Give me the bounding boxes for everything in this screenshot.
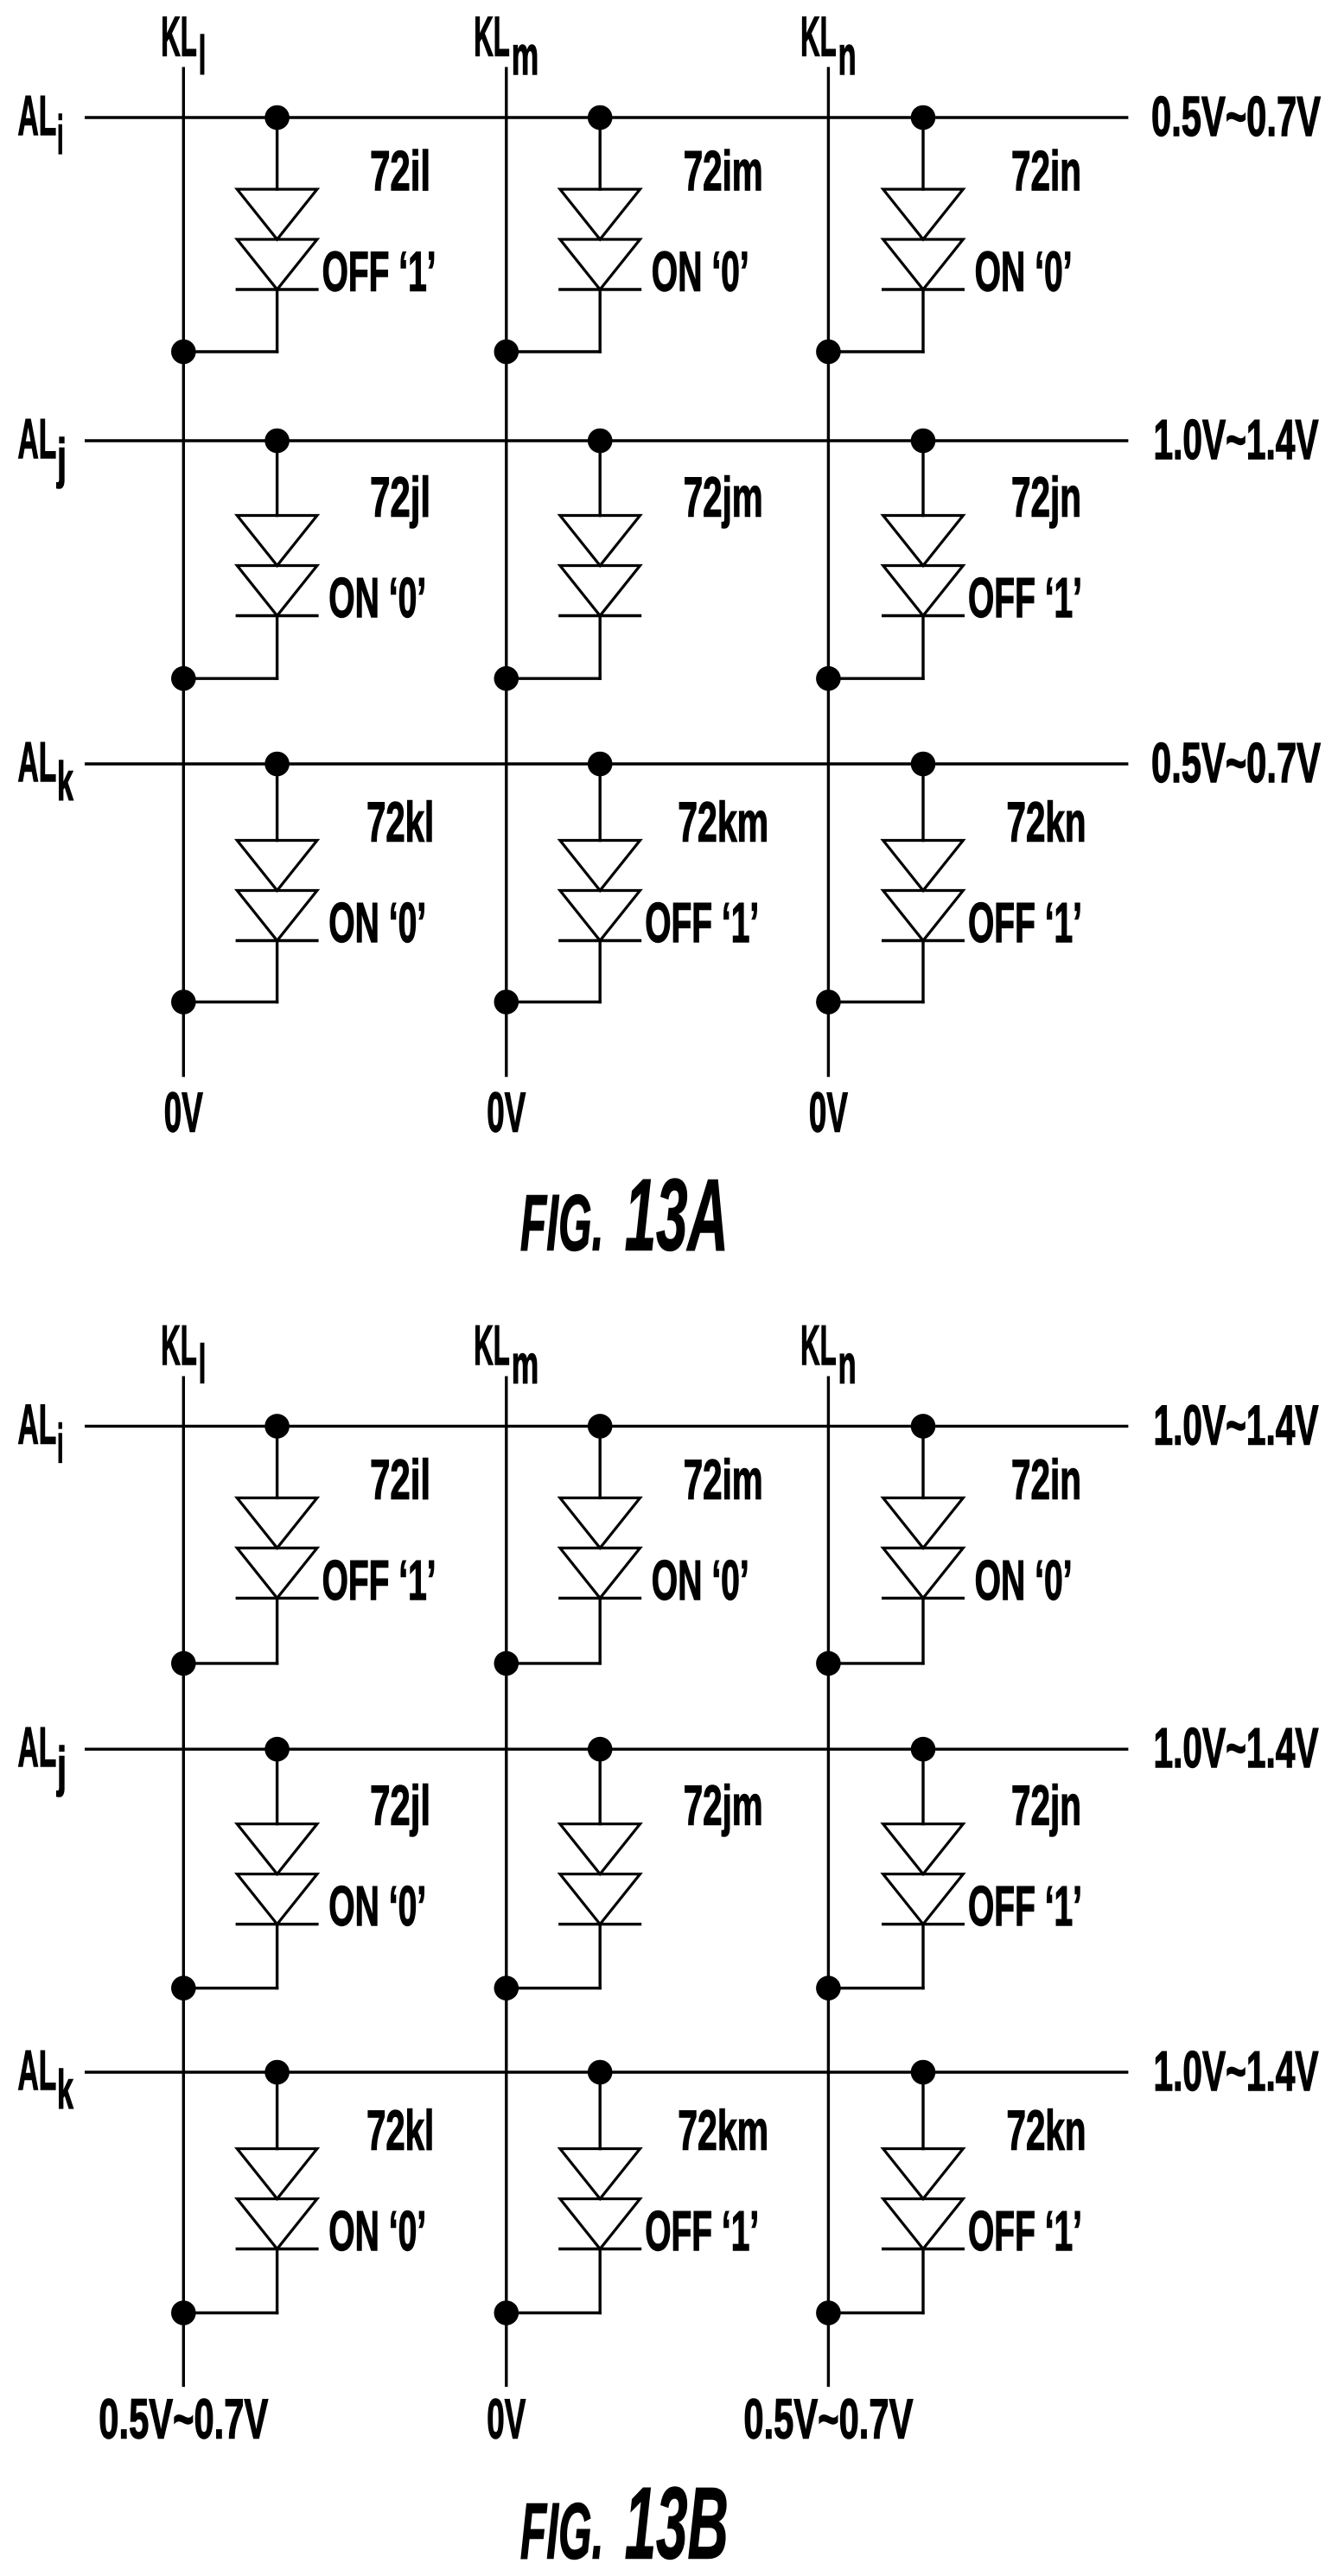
diode 72kn (two-triangle threshold selector) bbox=[883, 841, 964, 941]
wire: jog from 72km cathode to KLm bbox=[507, 2312, 600, 2314]
label: net name ALj bbox=[18, 407, 67, 489]
svg-text:72in: 72in bbox=[1011, 1447, 1081, 1511]
node: junction dot 72km cathode on KLm bbox=[494, 989, 519, 1014]
svg-text:72jm: 72jm bbox=[684, 1774, 763, 1837]
wire: cathode lead of 72im bbox=[599, 289, 602, 352]
node: junction dot ALj/72jm anode tap bbox=[588, 1737, 613, 1762]
wire: anode lead of 72im bbox=[599, 118, 602, 189]
wire: cathode lead of 72in bbox=[921, 289, 924, 352]
svg-text:ON ‘0’: ON ‘0’ bbox=[652, 240, 749, 303]
svg-text:ON ‘0’: ON ‘0’ bbox=[975, 240, 1073, 303]
wire: anode lead of 72il bbox=[276, 118, 278, 189]
node: junction dot ALk/72kl anode tap bbox=[264, 752, 290, 777]
label: net name KLm bbox=[474, 5, 538, 87]
svg-text:i: i bbox=[57, 105, 64, 166]
svg-text:KL: KL bbox=[474, 1313, 510, 1377]
svg-text:72km: 72km bbox=[678, 791, 768, 854]
svg-text:KL: KL bbox=[800, 5, 837, 68]
node: junction dot ALk/72km anode tap bbox=[588, 752, 613, 777]
node: junction dot ALk/72kl anode tap bbox=[264, 2060, 290, 2085]
svg-text:m: m bbox=[512, 26, 539, 86]
wire: jog from 72in cathode to KLn bbox=[828, 1662, 923, 1664]
diode 72jn (two-triangle threshold selector) bbox=[883, 1824, 964, 1924]
wire: bit line ALj (FIG.13A row conductor) bbox=[86, 439, 1127, 442]
wire: bit line ALi (FIG.13A row conductor) bbox=[86, 116, 1127, 118]
svg-text:0V: 0V bbox=[487, 2388, 526, 2451]
svg-text:72il: 72il bbox=[370, 139, 430, 202]
svg-text:KL: KL bbox=[161, 5, 197, 68]
svg-text:OFF ‘1’: OFF ‘1’ bbox=[322, 1549, 436, 1612]
svg-text:AL: AL bbox=[18, 84, 57, 147]
svg-text:FIG.: FIG. bbox=[520, 2487, 604, 2575]
diode 72im (two-triangle threshold selector) bbox=[560, 1498, 640, 1598]
svg-text:72kl: 72kl bbox=[366, 2099, 434, 2162]
svg-text:AL: AL bbox=[18, 730, 57, 793]
node: junction dot ALk/72kn anode tap bbox=[911, 2060, 936, 2085]
wire: jog from 72il cathode to KLl bbox=[183, 350, 277, 353]
wire: anode lead of 72jl bbox=[276, 441, 278, 516]
node: junction dot 72jm cathode on KLm bbox=[494, 1975, 519, 2000]
svg-text:KL: KL bbox=[161, 1313, 197, 1377]
node: junction dot ALk/72km anode tap bbox=[588, 2060, 613, 2085]
svg-text:72il: 72il bbox=[370, 1447, 430, 1511]
label: net name KLl bbox=[161, 1313, 206, 1396]
node: junction dot 72jn cathode on KLn bbox=[816, 666, 841, 691]
diode 72il (two-triangle threshold selector) bbox=[237, 1498, 317, 1598]
diode 72il (two-triangle threshold selector) bbox=[237, 189, 317, 289]
wire: cathode lead of 72jl bbox=[276, 616, 278, 679]
svg-text:1.0V~1.4V: 1.0V~1.4V bbox=[1154, 2039, 1319, 2102]
diode 72jl (two-triangle threshold selector) bbox=[237, 516, 317, 616]
wire: cathode lead of 72kn bbox=[921, 2249, 924, 2313]
node: junction dot ALk/72kn anode tap bbox=[911, 752, 936, 777]
wire: jog from 72jm cathode to KLm bbox=[507, 677, 600, 680]
svg-text:l: l bbox=[199, 26, 207, 86]
svg-text:n: n bbox=[838, 1335, 857, 1396]
node: junction dot ALj/72jn anode tap bbox=[911, 1737, 936, 1762]
svg-text:n: n bbox=[838, 26, 857, 86]
svg-text:72jl: 72jl bbox=[370, 1774, 430, 1837]
wire: jog from 72il cathode to KLl bbox=[183, 1662, 277, 1664]
svg-text:0.5V~0.7V: 0.5V~0.7V bbox=[743, 2388, 913, 2451]
svg-text:13A: 13A bbox=[625, 1159, 729, 1273]
wire: anode lead of 72kn bbox=[921, 2072, 924, 2149]
wire: word line KLn (FIG.13B column conductor) bbox=[827, 1377, 830, 2385]
svg-text:OFF ‘1’: OFF ‘1’ bbox=[968, 891, 1082, 954]
wire: anode lead of 72kn bbox=[921, 764, 924, 841]
node: junction dot 72kn cathode on KLn bbox=[816, 2300, 841, 2325]
label: figure caption FIG. 13B bbox=[520, 2466, 729, 2576]
node: junction dot 72kl cathode on KLl bbox=[171, 2300, 196, 2325]
svg-text:72jn: 72jn bbox=[1011, 466, 1081, 529]
svg-text:0V: 0V bbox=[809, 1081, 848, 1144]
node: junction dot 72jm cathode on KLm bbox=[494, 666, 519, 691]
svg-text:72in: 72in bbox=[1011, 139, 1081, 202]
diode 72km (two-triangle threshold selector) bbox=[560, 2149, 640, 2249]
wire: bit line ALk (FIG.13B row conductor) bbox=[86, 2070, 1127, 2073]
label: net name ALk bbox=[18, 2039, 74, 2121]
svg-text:k: k bbox=[57, 2060, 73, 2121]
svg-text:72kn: 72kn bbox=[1007, 2099, 1086, 2162]
diode 72km (two-triangle threshold selector) bbox=[560, 841, 640, 941]
wire: anode lead of 72jn bbox=[921, 1749, 924, 1824]
wire: anode lead of 72in bbox=[921, 118, 924, 189]
wire: anode lead of 72jl bbox=[276, 1749, 278, 1824]
wire: bit line ALk (FIG.13A row conductor) bbox=[86, 762, 1127, 765]
wire: cathode lead of 72kl bbox=[276, 2249, 278, 2313]
node: junction dot ALj/72jm anode tap bbox=[588, 429, 613, 454]
wire: word line KLl (FIG.13A column conductor) bbox=[182, 68, 185, 1075]
wire: bit line ALj (FIG.13B row conductor) bbox=[86, 1747, 1127, 1750]
wire: jog from 72km cathode to KLm bbox=[507, 1001, 600, 1003]
svg-text:0.5V~0.7V: 0.5V~0.7V bbox=[1151, 85, 1321, 148]
label: net name ALk bbox=[18, 730, 74, 812]
wire: jog from 72kn cathode to KLn bbox=[828, 1001, 923, 1003]
svg-text:j: j bbox=[56, 429, 67, 489]
node: junction dot 72kl cathode on KLl bbox=[171, 989, 196, 1014]
wire: cathode lead of 72jm bbox=[599, 616, 602, 679]
wire: anode lead of 72jm bbox=[599, 1749, 602, 1824]
node: junction dot ALi/72im anode tap bbox=[588, 1414, 613, 1439]
node: junction dot 72in cathode on KLn bbox=[816, 1651, 841, 1676]
node: junction dot 72kn cathode on KLn bbox=[816, 989, 841, 1014]
wire: cathode lead of 72in bbox=[921, 1598, 924, 1663]
wire: word line KLl (FIG.13B column conductor) bbox=[182, 1377, 185, 2385]
node: junction dot 72il cathode on KLl bbox=[171, 340, 196, 365]
svg-text:72km: 72km bbox=[678, 2099, 768, 2162]
wire: jog from 72in cathode to KLn bbox=[828, 350, 923, 353]
wire: cathode lead of 72kn bbox=[921, 941, 924, 1002]
wire: cathode lead of 72jn bbox=[921, 1924, 924, 1988]
svg-text:j: j bbox=[56, 1737, 67, 1797]
wire: jog from 72kl cathode to KLl bbox=[183, 1001, 277, 1003]
svg-text:1.0V~1.4V: 1.0V~1.4V bbox=[1154, 1393, 1319, 1456]
node: junction dot 72in cathode on KLn bbox=[816, 340, 841, 365]
wire: jog from 72jl cathode to KLl bbox=[183, 677, 277, 680]
svg-text:OFF ‘1’: OFF ‘1’ bbox=[322, 240, 436, 303]
svg-text:k: k bbox=[57, 752, 73, 812]
wire: cathode lead of 72km bbox=[599, 2249, 602, 2313]
node: junction dot 72jl cathode on KLl bbox=[171, 666, 196, 691]
diode 72jm (two-triangle threshold selector) bbox=[560, 1824, 640, 1924]
svg-text:OFF ‘1’: OFF ‘1’ bbox=[645, 2199, 759, 2262]
wire: word line KLn (FIG.13A column conductor) bbox=[827, 68, 830, 1075]
svg-text:ON ‘0’: ON ‘0’ bbox=[652, 1549, 749, 1612]
node: junction dot ALi/72in anode tap bbox=[911, 1414, 936, 1439]
wire: anode lead of 72km bbox=[599, 764, 602, 841]
wire: jog from 72jn cathode to KLn bbox=[828, 1987, 923, 1989]
wire: anode lead of 72il bbox=[276, 1426, 278, 1498]
svg-text:72im: 72im bbox=[684, 1447, 763, 1511]
svg-text:FIG.: FIG. bbox=[520, 1180, 604, 1268]
label: net name KLm bbox=[474, 1313, 538, 1396]
node: junction dot ALj/72jl anode tap bbox=[264, 429, 290, 454]
svg-text:72jm: 72jm bbox=[684, 466, 763, 529]
diode 72kl (two-triangle threshold selector) bbox=[237, 2149, 317, 2249]
svg-text:ON ‘0’: ON ‘0’ bbox=[328, 891, 426, 954]
node: junction dot 72im cathode on KLm bbox=[494, 1651, 519, 1676]
svg-text:KL: KL bbox=[474, 5, 510, 68]
svg-text:1.0V~1.4V: 1.0V~1.4V bbox=[1154, 408, 1319, 471]
svg-text:OFF ‘1’: OFF ‘1’ bbox=[968, 2199, 1082, 2262]
wire: cathode lead of 72im bbox=[599, 1598, 602, 1663]
svg-text:i: i bbox=[57, 1414, 64, 1474]
wire: jog from 72jn cathode to KLn bbox=[828, 677, 923, 680]
svg-text:AL: AL bbox=[18, 1392, 57, 1455]
node: junction dot ALi/72im anode tap bbox=[588, 105, 613, 130]
node: junction dot ALj/72jl anode tap bbox=[264, 1737, 290, 1762]
diode 72kn (two-triangle threshold selector) bbox=[883, 2149, 964, 2249]
label: net name ALj bbox=[18, 1715, 67, 1797]
wire: word line KLm (FIG.13B column conductor) bbox=[505, 1377, 507, 2385]
wire: anode lead of 72jm bbox=[599, 441, 602, 516]
svg-text:m: m bbox=[512, 1335, 539, 1396]
diode 72kl (two-triangle threshold selector) bbox=[237, 841, 317, 941]
wire: jog from 72jm cathode to KLm bbox=[507, 1987, 600, 1989]
svg-text:AL: AL bbox=[18, 2039, 57, 2102]
wire: cathode lead of 72il bbox=[276, 289, 278, 352]
diode 72jm (two-triangle threshold selector) bbox=[560, 516, 640, 616]
svg-text:OFF ‘1’: OFF ‘1’ bbox=[645, 891, 759, 954]
svg-text:l: l bbox=[199, 1335, 207, 1396]
node: junction dot 72im cathode on KLm bbox=[494, 340, 519, 365]
label: net name KLn bbox=[800, 1313, 857, 1396]
wire: anode lead of 72km bbox=[599, 2072, 602, 2149]
wire: cathode lead of 72jl bbox=[276, 1924, 278, 1988]
svg-text:72kn: 72kn bbox=[1007, 791, 1086, 854]
wire: cathode lead of 72kl bbox=[276, 941, 278, 1002]
svg-text:72im: 72im bbox=[684, 139, 763, 202]
label: net name ALi bbox=[18, 84, 64, 166]
svg-text:OFF ‘1’: OFF ‘1’ bbox=[968, 566, 1082, 629]
svg-text:0V: 0V bbox=[487, 1081, 526, 1144]
svg-text:ON ‘0’: ON ‘0’ bbox=[328, 2199, 426, 2262]
wire: word line KLm (FIG.13A column conductor) bbox=[505, 68, 507, 1075]
wire: cathode lead of 72il bbox=[276, 1598, 278, 1663]
wire: jog from 72jl cathode to KLl bbox=[183, 1987, 277, 1989]
svg-text:ON ‘0’: ON ‘0’ bbox=[328, 566, 426, 629]
svg-text:1.0V~1.4V: 1.0V~1.4V bbox=[1154, 1716, 1319, 1779]
label: figure caption FIG. 13A bbox=[520, 1159, 729, 1273]
diode 72jl (two-triangle threshold selector) bbox=[237, 1824, 317, 1924]
node: junction dot 72jl cathode on KLl bbox=[171, 1975, 196, 2000]
svg-text:ON ‘0’: ON ‘0’ bbox=[975, 1549, 1073, 1612]
node: junction dot ALi/72in anode tap bbox=[911, 105, 936, 130]
label: net name KLl bbox=[161, 5, 206, 87]
wire: anode lead of 72im bbox=[599, 1426, 602, 1498]
diode 72in (two-triangle threshold selector) bbox=[883, 189, 964, 289]
svg-text:AL: AL bbox=[18, 407, 57, 470]
node: junction dot ALi/72il anode tap bbox=[264, 105, 290, 130]
node: junction dot 72km cathode on KLm bbox=[494, 2300, 519, 2325]
diode 72jn (two-triangle threshold selector) bbox=[883, 516, 964, 616]
node: junction dot ALj/72jn anode tap bbox=[911, 429, 936, 454]
svg-text:AL: AL bbox=[18, 1715, 57, 1778]
wire: anode lead of 72in bbox=[921, 1426, 924, 1498]
svg-text:72kl: 72kl bbox=[366, 791, 434, 854]
label: net name ALi bbox=[18, 1392, 64, 1474]
node: junction dot 72il cathode on KLl bbox=[171, 1651, 196, 1676]
svg-text:72jn: 72jn bbox=[1011, 1774, 1081, 1837]
svg-text:0.5V~0.7V: 0.5V~0.7V bbox=[99, 2388, 268, 2451]
wire: jog from 72kn cathode to KLn bbox=[828, 2312, 923, 2314]
svg-text:13B: 13B bbox=[625, 2466, 729, 2576]
wire: jog from 72im cathode to KLm bbox=[507, 1662, 600, 1664]
wire: cathode lead of 72jm bbox=[599, 1924, 602, 1988]
node: junction dot ALi/72il anode tap bbox=[264, 1414, 290, 1439]
wire: anode lead of 72kl bbox=[276, 764, 278, 841]
svg-text:0V: 0V bbox=[164, 1081, 203, 1144]
wire: jog from 72im cathode to KLm bbox=[507, 350, 600, 353]
wire: anode lead of 72kl bbox=[276, 2072, 278, 2149]
wire: bit line ALi (FIG.13B row conductor) bbox=[86, 1425, 1127, 1428]
diode 72im (two-triangle threshold selector) bbox=[560, 189, 640, 289]
wire: jog from 72kl cathode to KLl bbox=[183, 2312, 277, 2314]
wire: cathode lead of 72km bbox=[599, 941, 602, 1002]
diode 72in (two-triangle threshold selector) bbox=[883, 1498, 964, 1598]
svg-text:KL: KL bbox=[800, 1313, 837, 1377]
node: junction dot 72jn cathode on KLn bbox=[816, 1975, 841, 2000]
label: net name KLn bbox=[800, 5, 857, 87]
svg-text:72jl: 72jl bbox=[370, 466, 430, 529]
svg-text:OFF ‘1’: OFF ‘1’ bbox=[968, 1874, 1082, 1937]
wire: cathode lead of 72jn bbox=[921, 616, 924, 679]
svg-text:0.5V~0.7V: 0.5V~0.7V bbox=[1151, 731, 1321, 794]
wire: anode lead of 72jn bbox=[921, 441, 924, 516]
svg-text:ON ‘0’: ON ‘0’ bbox=[328, 1874, 426, 1937]
